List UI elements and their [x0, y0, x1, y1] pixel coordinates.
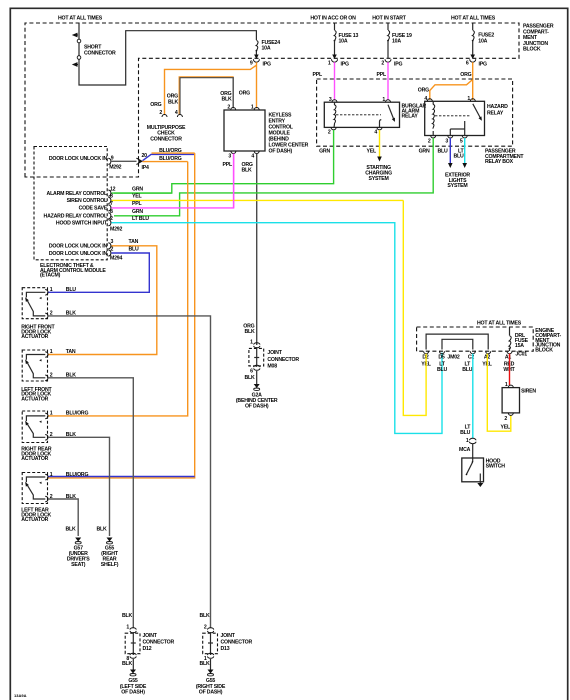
svg-text:ALARM RELAY CONTROL: ALARM RELAY CONTROL [47, 191, 108, 197]
svg-text:GRN: GRN [132, 186, 143, 192]
svg-text:BLK: BLK [168, 100, 179, 106]
svg-text:1: 1 [382, 97, 385, 103]
svg-text:1: 1 [50, 287, 53, 293]
svg-text:1: 1 [50, 349, 53, 355]
svg-text:JOINT: JOINT [143, 633, 158, 639]
svg-text:BLK: BLK [96, 527, 107, 533]
svg-text:SWITCH: SWITCH [486, 464, 506, 470]
svg-text:1: 1 [328, 61, 331, 67]
svg-text:6: 6 [250, 369, 253, 375]
svg-text:10A: 10A [262, 46, 271, 52]
svg-text:YEL: YEL [501, 425, 512, 431]
svg-text:ORG: ORG [150, 102, 161, 108]
svg-text:1: 1 [251, 105, 254, 111]
svg-text:SIREN: SIREN [521, 388, 536, 394]
svg-text:RELAY: RELAY [487, 110, 504, 116]
svg-text:BLU: BLU [129, 246, 140, 252]
svg-text:DOOR LOCK UNLOCK IN: DOOR LOCK UNLOCK IN [49, 244, 108, 250]
svg-text:M292: M292 [109, 165, 121, 171]
svg-text:2: 2 [428, 139, 431, 145]
svg-text:GRN: GRN [132, 209, 143, 215]
svg-text:YEL: YEL [367, 148, 378, 154]
svg-text:M294: M294 [110, 256, 122, 262]
svg-text:BLU/ORG: BLU/ORG [66, 411, 89, 417]
svg-text:HOOD SWITCH INPUT: HOOD SWITCH INPUT [56, 220, 108, 226]
svg-text:3: 3 [445, 139, 448, 145]
svg-text:OF DASH): OF DASH) [269, 149, 293, 155]
svg-text:HOT IN ACC OR ON: HOT IN ACC OR ON [310, 16, 356, 22]
svg-text:TAN: TAN [129, 239, 139, 245]
svg-text:CONNECTOR: CONNECTOR [143, 640, 175, 646]
svg-text:2: 2 [159, 110, 162, 116]
svg-text:BLU: BLU [437, 367, 448, 373]
svg-text:4: 4 [374, 130, 377, 136]
svg-text:ACTUATOR: ACTUATOR [21, 334, 48, 340]
svg-text:BLU/ORG: BLU/ORG [66, 472, 89, 478]
svg-text:BLU: BLU [66, 287, 77, 293]
svg-text:BLK: BLK [65, 527, 76, 533]
svg-text:DOOR LOCK UNLOCK IN: DOOR LOCK UNLOCK IN [49, 251, 108, 257]
svg-text:M08: M08 [267, 364, 277, 370]
svg-text:D13: D13 [221, 646, 230, 652]
svg-text:BLU: BLU [460, 430, 471, 436]
svg-text:DOOR LOCK UNLOCK IN: DOOR LOCK UNLOCK IN [49, 156, 108, 162]
svg-text:OF DASH): OF DASH) [121, 690, 145, 696]
svg-text:4: 4 [424, 96, 427, 102]
svg-text:BLK: BLK [244, 375, 255, 381]
svg-text:2: 2 [504, 416, 507, 422]
svg-text:MCA: MCA [459, 447, 471, 453]
svg-text:1: 1 [50, 411, 53, 417]
svg-text:CONNECTOR: CONNECTOR [221, 640, 253, 646]
svg-text:BLU: BLU [462, 367, 473, 373]
svg-text:SYSTEM: SYSTEM [447, 183, 467, 189]
svg-text:OF DASH): OF DASH) [199, 690, 223, 696]
svg-text:10A: 10A [478, 39, 487, 45]
svg-text:12: 12 [110, 186, 116, 192]
svg-text:ORG: ORG [239, 91, 250, 97]
svg-text:IPG: IPG [341, 62, 350, 68]
svg-text:8: 8 [110, 209, 113, 215]
svg-text:BLK: BLK [199, 661, 210, 667]
svg-text:2: 2 [204, 625, 207, 631]
svg-text:CONNECTOR: CONNECTOR [150, 136, 182, 142]
svg-text:4: 4 [251, 154, 254, 160]
svg-text:GRN: GRN [419, 148, 430, 154]
svg-text:OF DASH): OF DASH) [245, 404, 269, 410]
svg-text:PPL: PPL [223, 162, 234, 168]
svg-text:JM02: JM02 [447, 355, 459, 361]
svg-text:IP4: IP4 [142, 165, 150, 171]
svg-text:ACTUATOR: ACTUATOR [21, 397, 48, 403]
svg-text:8: 8 [110, 194, 113, 200]
svg-text:ACTUATOR: ACTUATOR [21, 456, 48, 462]
svg-text:GRN: GRN [319, 148, 330, 154]
svg-text:CODE SAVE: CODE SAVE [79, 206, 108, 212]
svg-text:JC01: JC01 [515, 352, 527, 358]
svg-text:7: 7 [110, 201, 113, 207]
svg-text:BLK: BLK [199, 613, 210, 619]
svg-text:PPL: PPL [377, 72, 388, 78]
svg-text:1: 1 [467, 96, 470, 102]
svg-text:BLOCK: BLOCK [535, 347, 553, 353]
svg-text:3: 3 [228, 154, 231, 160]
svg-text:RELAY: RELAY [402, 114, 419, 120]
svg-text:IPG: IPG [394, 62, 403, 68]
svg-text:M292: M292 [110, 227, 122, 233]
svg-text:BLK: BLK [122, 613, 133, 619]
svg-text:5: 5 [460, 139, 463, 145]
svg-text:ORG: ORG [460, 72, 471, 78]
svg-text:BLK: BLK [122, 661, 133, 667]
svg-text:IPG: IPG [479, 62, 488, 68]
svg-text:TAN: TAN [66, 349, 76, 355]
svg-text:2: 2 [111, 246, 114, 252]
svg-text:6: 6 [466, 61, 469, 67]
svg-text:ACTUATOR: ACTUATOR [21, 517, 48, 523]
svg-text:10A: 10A [392, 39, 401, 45]
svg-text:2: 2 [227, 105, 230, 111]
svg-text:1: 1 [50, 472, 53, 478]
svg-text:BLK: BLK [221, 97, 232, 103]
svg-text:13A9A: 13A9A [14, 693, 27, 698]
svg-text:CONNECTOR: CONNECTOR [267, 357, 299, 363]
svg-text:LT BLU: LT BLU [132, 216, 149, 222]
svg-text:2: 2 [110, 216, 113, 222]
svg-text:1: 1 [466, 438, 469, 444]
svg-text:HOT AT ALL TIMES: HOT AT ALL TIMES [58, 16, 103, 22]
svg-text:BLU: BLU [437, 148, 448, 154]
svg-text:PPL: PPL [132, 201, 143, 207]
svg-text:1: 1 [126, 625, 129, 631]
svg-text:PPL: PPL [313, 72, 324, 78]
svg-text:SEAT): SEAT) [71, 562, 86, 568]
svg-text:YEL: YEL [132, 194, 143, 200]
svg-text:D5: D5 [438, 355, 445, 361]
svg-text:ORG: ORG [418, 87, 429, 93]
svg-text:BLK: BLK [244, 329, 255, 335]
svg-text:2: 2 [381, 61, 384, 67]
svg-text:1: 1 [250, 340, 253, 346]
svg-text:10A: 10A [339, 39, 348, 45]
svg-text:IPG: IPG [263, 62, 272, 68]
svg-text:SHELF): SHELF) [101, 562, 119, 568]
svg-text:BLU/ORG: BLU/ORG [159, 156, 182, 162]
svg-text:A1: A1 [505, 355, 512, 361]
svg-text:15A: 15A [515, 343, 524, 349]
svg-text:1: 1 [505, 382, 508, 388]
svg-text:BLU: BLU [453, 154, 464, 160]
svg-text:HOT AT ALL TIMES: HOT AT ALL TIMES [477, 320, 522, 326]
svg-text:HAZARD: HAZARD [487, 104, 508, 110]
svg-text:SYSTEM: SYSTEM [369, 176, 389, 182]
svg-text:HOT AT ALL TIMES: HOT AT ALL TIMES [451, 16, 496, 22]
svg-text:(ETACM): (ETACM) [40, 273, 61, 279]
svg-text:3: 3 [111, 239, 114, 245]
svg-text:3: 3 [329, 97, 332, 103]
svg-text:BLK: BLK [242, 168, 253, 174]
svg-text:HAZARD RELAY CONTROL: HAZARD RELAY CONTROL [44, 214, 108, 220]
svg-text:2: 2 [328, 130, 331, 136]
svg-text:RELAY BOX: RELAY BOX [485, 159, 514, 165]
svg-text:CONNECTOR: CONNECTOR [84, 51, 116, 57]
svg-text:HOT IN START: HOT IN START [372, 16, 407, 22]
svg-text:4: 4 [175, 110, 178, 116]
svg-text:BLU/ORG: BLU/ORG [159, 148, 182, 154]
svg-text:BLOCK: BLOCK [523, 47, 541, 53]
svg-text:9: 9 [250, 61, 253, 67]
svg-text:D12: D12 [143, 646, 152, 652]
svg-text:JOINT: JOINT [267, 350, 282, 356]
svg-text:SIREN CONTROL: SIREN CONTROL [67, 198, 108, 204]
svg-text:JOINT: JOINT [221, 633, 236, 639]
